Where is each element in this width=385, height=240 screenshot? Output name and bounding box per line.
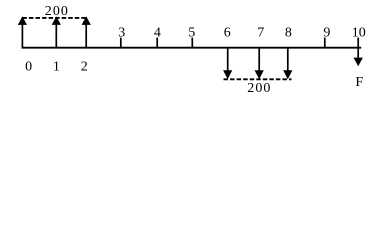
svg-text:200: 200 — [247, 81, 271, 96]
tick 4 — [156, 38, 158, 48]
svg-text:0: 0 — [25, 60, 32, 75]
svg-text:2: 2 — [81, 60, 88, 75]
tick 10 — [357, 38, 359, 48]
down load arrow at node 7 — [255, 47, 264, 79]
svg-text:10: 10 — [352, 25, 366, 40]
bottom dashed load line — [224, 78, 292, 80]
down load arrow at node 8 — [283, 47, 292, 79]
beam axis line — [22, 47, 362, 49]
up load arrow at node 0 — [18, 16, 27, 48]
svg-text:9: 9 — [323, 25, 330, 40]
svg-text:4: 4 — [154, 25, 161, 40]
svg-text:F: F — [355, 75, 363, 90]
svg-text:5: 5 — [188, 25, 195, 40]
down load arrow at node 6 — [223, 47, 232, 79]
tick 9 — [324, 38, 326, 48]
svg-text:3: 3 — [118, 25, 125, 40]
force arrow F at node 10 — [354, 48, 363, 66]
svg-text:200: 200 — [45, 4, 69, 19]
up load arrow at node 1 — [52, 16, 61, 48]
svg-text:1: 1 — [53, 60, 60, 75]
tick 5 — [191, 38, 193, 48]
svg-text:7: 7 — [257, 25, 264, 40]
svg-text:8: 8 — [285, 25, 292, 40]
top dashed load line — [22, 17, 87, 19]
svg-text:6: 6 — [224, 25, 231, 40]
tick 3 — [120, 38, 122, 48]
up load arrow at node 2 — [82, 16, 91, 48]
